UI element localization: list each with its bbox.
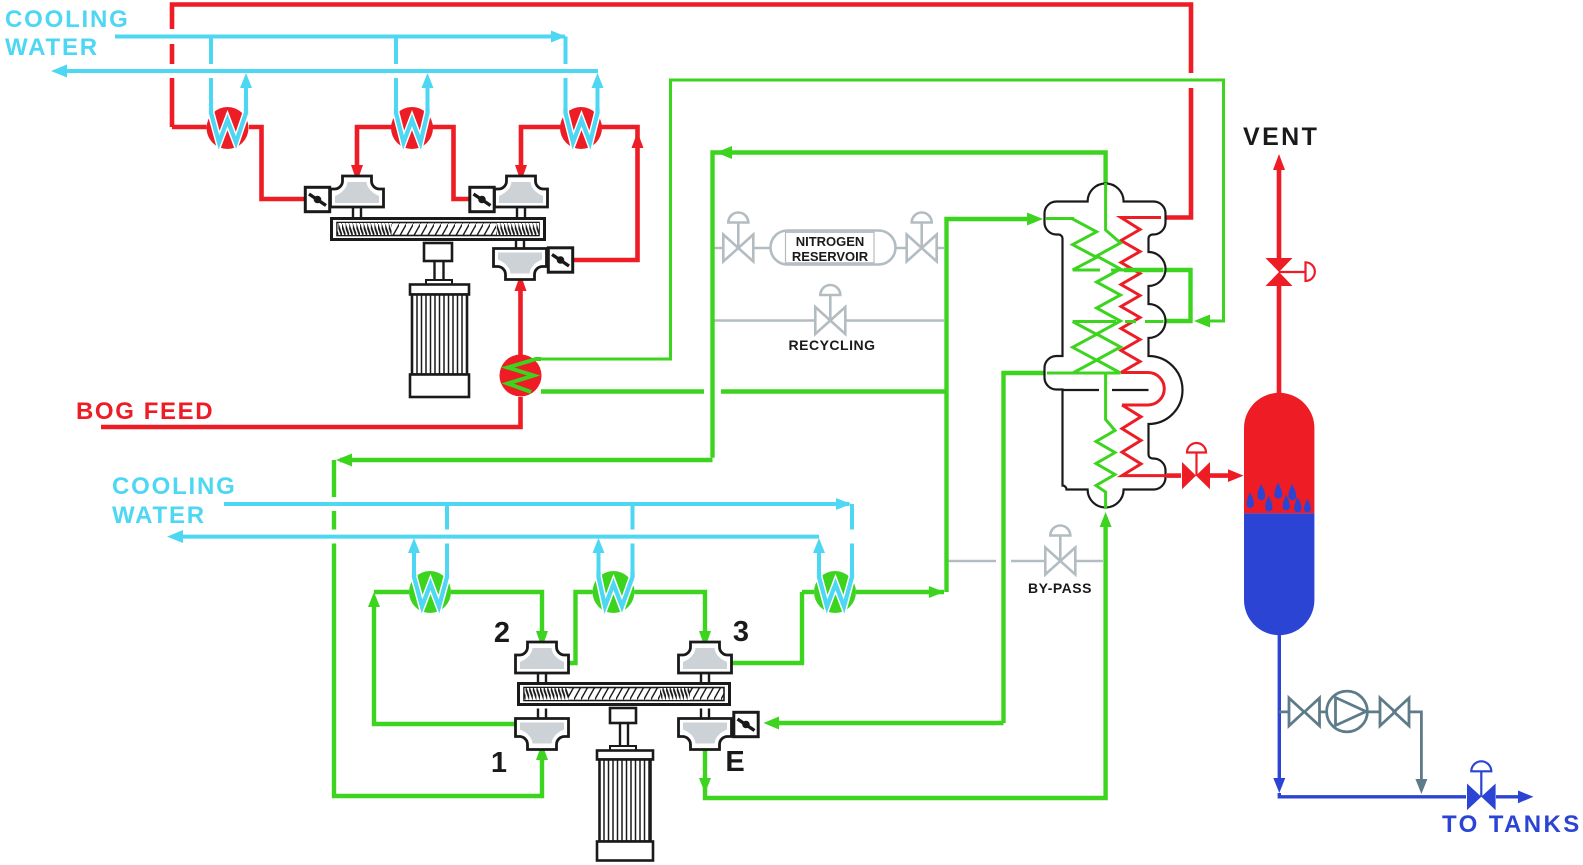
arrow riser W2 (422, 73, 434, 88)
arrow into stage C (515, 274, 527, 291)
wire pump loop (slate) (1279, 712, 1421, 780)
wire economizer bottom outlet to riser (541, 389, 945, 393)
wire cooler W3 to stage B suction (521, 127, 561, 168)
wire stage C discharge to cooler W3 (573, 127, 638, 260)
divider line between sections (1063, 389, 1149, 391)
cooler G1 cw coil (414, 572, 447, 607)
compressor stage 1 (inverted) (516, 709, 569, 750)
cooler W1 cw coil (211, 108, 246, 143)
svg-text:1: 1 (491, 747, 507, 779)
arrow into stage 2 (536, 631, 548, 648)
arrow before riser (929, 586, 944, 598)
wire cooler W2 to stage A suction (357, 127, 392, 168)
nitrogen reservoir capsule (771, 231, 896, 265)
arrow up into cold box bottom (1100, 512, 1112, 527)
wire stage 3 discharge to cooler G3 (731, 592, 814, 663)
green cold coil lower (1096, 373, 1115, 509)
SECTION: top red BOG circuit (76, 5, 1191, 428)
wire cw riser from cooler W1 (244, 86, 248, 112)
green mid manifold to left outlet (1047, 372, 1106, 375)
green cold coil mid left (1073, 322, 1097, 374)
wire cw riser from cooler W2 (426, 86, 430, 112)
wire red header to cold box (top) (170, 78, 175, 127)
arrow return left (bottom) (167, 530, 183, 543)
wire cw drop to cooler G1 (445, 504, 449, 576)
to tanks valve actuator (1471, 761, 1491, 797)
gearbox (top train) (332, 219, 545, 240)
green cold coil upper left (1046, 219, 1097, 271)
vent valve side actuator (1279, 262, 1315, 281)
svg-text:TO TANKS: TO TANKS (1442, 811, 1582, 838)
arrow up on stage C discharge riser (632, 132, 644, 148)
arrow riser G3 (813, 538, 825, 553)
green center coil from top bump (1097, 183, 1121, 373)
arrow down on outlet (1273, 778, 1285, 793)
motor coupling (bottom train) (610, 708, 636, 723)
motor (top train) (410, 285, 469, 295)
arrow riser W1 (240, 73, 252, 88)
arrow left to stage 1 loop (336, 454, 352, 467)
svg-text:3: 3 (733, 616, 749, 648)
wire cooler G1 feed stub (374, 590, 409, 594)
arrow riser G1 (408, 538, 420, 553)
arrow return left (51, 65, 67, 78)
wire cw supply header (bottom) (224, 502, 850, 506)
valve P1 (slate bowtie) (1289, 698, 1320, 726)
SECTION: vent and vessel (1167, 123, 1319, 635)
arrow riser W3 (592, 73, 604, 88)
arrow riser G2 (593, 538, 605, 553)
valve N1 (nitrogen reservoir inlet) (723, 213, 753, 262)
cooler W2 (red shell) (391, 107, 433, 149)
wire cw return header (bottom) (176, 535, 819, 539)
valve to tanks (blue bowtie) (1467, 784, 1496, 811)
wire cw drop to cooler G2 (631, 504, 635, 576)
SECTION: top cooling water (5, 6, 604, 112)
wire economizer hot return (top thin run) (541, 80, 1224, 359)
wire cooler G2 to stage 3 (635, 592, 706, 632)
cooler G1 (green shell) (409, 571, 451, 613)
cooler G3 cw coil (819, 572, 852, 607)
svg-text:2: 2 (494, 617, 510, 649)
arrow into cold box top left (1027, 213, 1043, 226)
wire riser to cold box inlet (947, 219, 1031, 592)
arrow left on header return (716, 146, 732, 159)
compressor stage C (inverted) (494, 239, 547, 280)
compressor stage A (331, 176, 384, 217)
wire cooling water supply header (top) (115, 35, 565, 39)
SECTION: to tanks (1273, 635, 1581, 838)
arrow into stage B (515, 165, 527, 182)
svg-text:WATER: WATER (5, 34, 99, 61)
cooler G2 cw coil (599, 572, 633, 607)
wire cooler W1 to header (172, 125, 207, 130)
svg-text:COOLING: COOLING (112, 473, 237, 500)
arrow pump loop down (1415, 779, 1427, 794)
cooler W3 (red shell) (560, 107, 602, 149)
wire left loop down (334, 460, 542, 796)
SECTION: bottom cooling water (112, 473, 852, 576)
arrow supply right (551, 31, 566, 43)
wire vent line (1277, 166, 1282, 393)
svg-text:COOLING: COOLING (5, 6, 130, 33)
SECTION: bottom compressor train (409, 571, 856, 861)
wire cooler W2 inlet riser (from stage B discharge) (432, 127, 470, 199)
wire cw drop to cooler W1 (209, 37, 213, 113)
vessel lower (liquid, blue) (1244, 513, 1314, 635)
motor (bottom train) (597, 751, 653, 760)
wire cooling water return header (top) (60, 69, 598, 73)
wire BOG feed line (101, 397, 521, 427)
red hot coil upper (1121, 218, 1161, 373)
wire cw riser from cooler G2 (597, 550, 601, 576)
arrow into vessel (1228, 469, 1244, 482)
wire stage 1 discharge to cooler G1 (374, 600, 516, 724)
SECTION: nitrogen reservoir / recycling (714, 213, 1103, 597)
arrow into stage 1 (536, 744, 548, 761)
economizer green coil (508, 359, 541, 392)
wire cooler W1 inlet riser (from stage A discharge) (249, 127, 305, 199)
svg-text:RESERVOIR: RESERVOIR (792, 249, 869, 264)
valve vent (red bowtie) (1266, 258, 1293, 286)
cooler W1 (red shell) (207, 107, 249, 149)
wire cw riser from cooler G3 (817, 550, 821, 576)
svg-text:RECYCLING: RECYCLING (789, 337, 876, 353)
wire suction run to bottom train (340, 458, 713, 462)
compressor stage 2 (516, 642, 569, 683)
vessel upper (vapor, red) (1244, 393, 1314, 514)
arrow vent up (1273, 154, 1285, 170)
cooler G2 (green shell) (593, 571, 635, 613)
pump (circle with triangle) (1327, 691, 1368, 732)
valve JT (red bowtie) (1182, 462, 1210, 489)
wire cw drop to cooler W2 (394, 37, 398, 113)
red hot coil lower (1122, 405, 1167, 476)
wire cooler G3 to cold box riser (856, 590, 944, 594)
arrow down from expander (699, 778, 711, 793)
compressor stage E expander (inverted) (679, 709, 732, 750)
SECTION: top compressor train (305, 176, 572, 397)
wire vessel bottom outlet (1278, 635, 1281, 787)
SECTION: green loop (334, 80, 1224, 798)
green return from hump2 (1073, 320, 1164, 323)
svg-text:E: E (725, 746, 744, 778)
wire recycling line (714, 319, 944, 322)
wire hump1-hump2 jumper (1163, 270, 1191, 321)
wire expander discharge to cold box bottom (705, 521, 1106, 798)
arrow up into cooler G1 corner (368, 592, 380, 607)
droplets at interface (1247, 483, 1311, 513)
wire cw riser from cooler W3 (596, 86, 600, 112)
instrument box at expander E (734, 712, 758, 736)
instrument box at stage A (305, 187, 329, 211)
wire cw riser from cooler G1 (412, 550, 416, 576)
instrument box at stage C (548, 248, 572, 272)
JT valve actuator dome (1187, 443, 1206, 476)
arrow to tanks (1518, 791, 1534, 804)
motor coupling (top train) (424, 243, 452, 261)
cooler W3 cw coil (566, 108, 598, 143)
valve recycling (815, 285, 845, 334)
green crossover to hump1 (1073, 269, 1124, 272)
compressor stage 3 (679, 642, 732, 683)
svg-text:NITROGEN: NITROGEN (796, 234, 865, 249)
wire to tanks run (1279, 793, 1524, 797)
red coil U-turn (1121, 373, 1164, 406)
arrow into expander instrument box (764, 717, 780, 730)
cooler G3 (green shell) (814, 571, 856, 613)
valve by-pass (1045, 526, 1075, 575)
wire cw drop to cooler W3 (564, 37, 568, 113)
wire JT outlet to vessel (1167, 473, 1181, 478)
arrow into hump2 line (1194, 315, 1210, 328)
compressor stage B (495, 176, 548, 217)
valve N2 (nitrogen reservoir outlet) (907, 213, 937, 262)
wire cooler G1 to stage 2 (451, 592, 542, 632)
valve P2 (slate bowtie) (1380, 698, 1409, 726)
arrow supply right (bottom) (836, 498, 851, 510)
instrument box at stage B (470, 187, 494, 211)
wire economizer to stage C suction (518, 287, 523, 355)
svg-text:WATER: WATER (112, 502, 206, 529)
wire cw drop to cooler G3 (850, 504, 854, 576)
wire nitrogen line (714, 247, 944, 250)
svg-text:BY-PASS: BY-PASS (1028, 580, 1092, 596)
cold box shell outline (1045, 184, 1183, 508)
wire stage 2 discharge to cooler G2 (568, 592, 593, 663)
cooler W2 cw coil (396, 108, 428, 143)
gearbox (bottom train) (519, 684, 730, 705)
svg-text:VENT: VENT (1243, 123, 1319, 151)
wire by-pass line (948, 560, 1103, 563)
wire cold box mid outlet to expander (779, 373, 1044, 723)
SECTION: cold box (1045, 183, 1183, 509)
svg-text:BOG FEED: BOG FEED (76, 398, 214, 425)
arrow into stage 3 (699, 631, 711, 648)
economizer (red shell) (500, 355, 542, 397)
arrow into stage A (351, 165, 363, 182)
wire cold box top outlet to nitrogen header (713, 153, 1106, 458)
